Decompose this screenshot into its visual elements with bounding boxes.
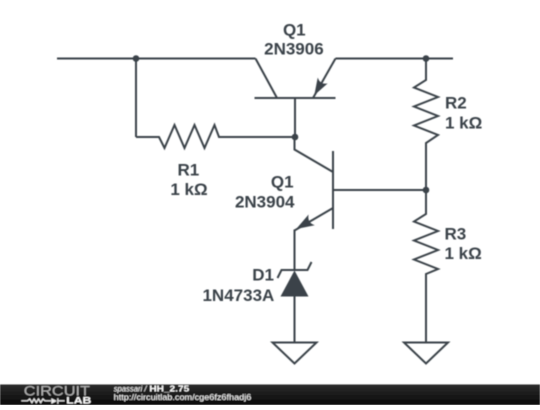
zener diode D1 cathode bar with bent ends xyxy=(278,262,312,278)
wire: Q1 2N3904 emitter down to D1 cathode xyxy=(294,230,296,271)
node dot: R1 / Q1 base / Q2 collector junction xyxy=(292,134,299,141)
node dot: top wire / R1 junction xyxy=(133,55,140,62)
svg-text:Q1: Q1 xyxy=(271,172,294,191)
svg-text:Q1: Q1 xyxy=(283,20,306,39)
svg-text:2N3904: 2N3904 xyxy=(235,193,295,212)
ground symbol (left, below D1) xyxy=(273,343,317,364)
svg-text:1N4733A: 1N4733A xyxy=(202,286,274,305)
svg-text:1 kΩ: 1 kΩ xyxy=(170,180,207,199)
transistor Q1 2N3906 (PNP) bar xyxy=(255,97,336,99)
CircuitLab logo circuit squiggle (resistor + diode) xyxy=(21,398,64,404)
transistor Q1 2N3904 (NPN) bar xyxy=(332,151,334,229)
resistor R2 xyxy=(414,59,438,191)
wire: top-right from Q1 2N3906 emitter to stub end xyxy=(336,58,454,60)
svg-text:R2: R2 xyxy=(445,93,467,112)
ground symbol (right, below R3) xyxy=(404,343,448,364)
svg-text:R1: R1 xyxy=(178,160,200,179)
Q1 2N3906 base lead xyxy=(294,98,296,137)
svg-text:2N3906: 2N3906 xyxy=(264,40,324,59)
node dot: top wire / R2 junction xyxy=(423,55,430,62)
Q1 2N3906 emitter arrowhead xyxy=(314,78,327,96)
Q1 2N3906 emitter diagonal xyxy=(313,59,336,99)
svg-text:HH_2.75: HH_2.75 xyxy=(149,384,189,393)
wire: D1 anode down to ground xyxy=(294,297,296,343)
svg-text:D1: D1 xyxy=(252,265,274,284)
Q1 2N3904 base lead wire to node xyxy=(333,189,426,191)
wire: drop from top wire to R1 left xyxy=(135,59,137,138)
svg-text:1 kΩ: 1 kΩ xyxy=(445,114,482,133)
zener diode D1 anode triangle xyxy=(281,271,309,297)
svg-text:spassari /: spassari / xyxy=(114,384,148,393)
Q1 2N3904 emitter diagonal xyxy=(295,208,334,231)
Q1 2N3904 collector diagonal and lead xyxy=(295,137,334,172)
resistor R1 xyxy=(136,125,295,148)
svg-text:1 kΩ: 1 kΩ xyxy=(445,244,482,263)
wire: top-left input to Q1 2N3906 collector xyxy=(57,58,256,60)
Q1 2N3904 emitter arrowhead xyxy=(296,215,315,230)
Q1 2N3906 collector diagonal xyxy=(256,59,278,99)
svg-text:LAB: LAB xyxy=(66,396,91,406)
node dot: R2 / R3 / Q2 base junction xyxy=(423,187,430,194)
footer bar xyxy=(0,385,540,406)
resistor R3 xyxy=(414,190,438,343)
svg-text:R3: R3 xyxy=(445,224,467,243)
svg-text:http://circuitlab.com/cge6fz6f: http://circuitlab.com/cge6fz6fhadj6 xyxy=(114,393,252,402)
